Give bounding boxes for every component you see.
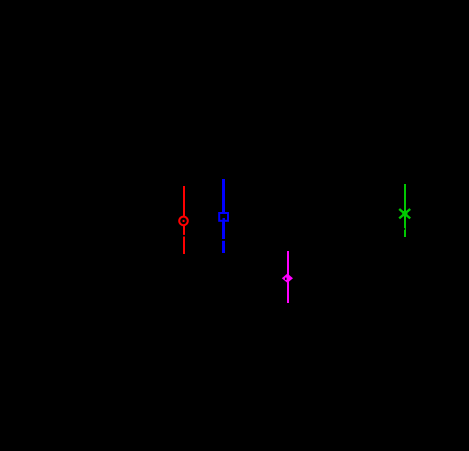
black curve gap across blue bar [221, 239, 225, 241]
green star marker X arms [399, 209, 410, 218]
black curve gap across red bar [182, 235, 185, 237]
red errorbar line (series 1) [183, 186, 185, 254]
red open circle marker [179, 217, 188, 226]
magenta errorbar line (series 3) [287, 251, 289, 303]
green errorbar line (series 4) [404, 184, 406, 237]
red marker center dot [183, 220, 185, 222]
black curve notch on green bar [404, 228, 405, 230]
blue errorbar line (series 2) [222, 179, 225, 253]
black notch inside diamond [285, 278, 287, 280]
blue open square marker [219, 213, 228, 221]
magenta filled diamond marker [282, 274, 293, 283]
blue marker center dot [223, 218, 226, 220]
green marker center block [402, 211, 407, 216]
